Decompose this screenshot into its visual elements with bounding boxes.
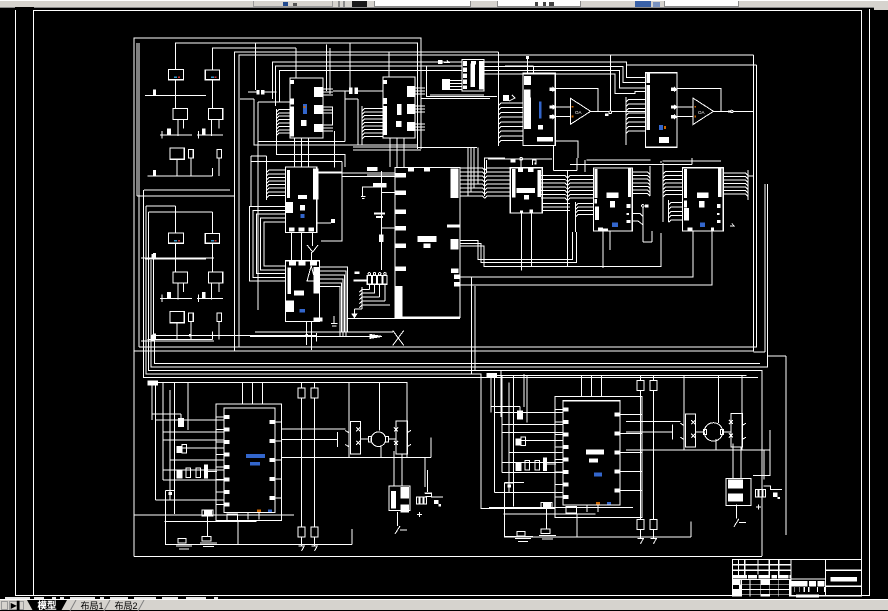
svg-text:OA: OA — [698, 110, 705, 115]
svg-text:布局2: 布局2 — [114, 600, 137, 611]
svg-text:布局1: 布局1 — [80, 600, 103, 611]
svg-text:模型: 模型 — [37, 600, 57, 611]
svg-text:OA: OA — [575, 110, 582, 115]
